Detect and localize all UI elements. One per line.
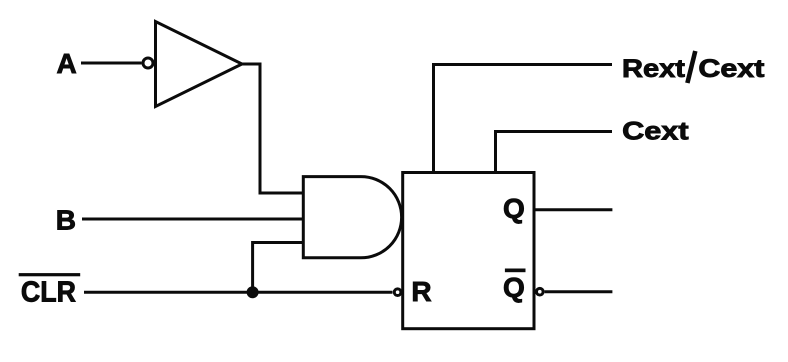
inverter U1 triangle bbox=[156, 22, 243, 107]
svg-text:R: R bbox=[411, 276, 431, 307]
svg-text:A: A bbox=[57, 48, 77, 79]
AND gate U2 bbox=[303, 177, 401, 258]
wire B to AND gate input 2 bbox=[82, 218, 302, 221]
svg-text:CLR: CLR bbox=[21, 277, 76, 309]
wire junction branch to AND gate input 3 bbox=[253, 243, 302, 293]
svg-text:Cext: Cext bbox=[698, 55, 765, 83]
wire Cext from block top bbox=[496, 132, 613, 174]
Q-bar output bubble on block bbox=[537, 288, 544, 295]
inverter U1 input bubble bbox=[143, 58, 153, 68]
one-shot block U3 body bbox=[403, 173, 534, 329]
wire Q output bbox=[534, 208, 613, 211]
Q-bar overline bar bbox=[505, 269, 526, 273]
wire Rext/Cext from block top bbox=[434, 65, 613, 174]
svg-text:Rext: Rext bbox=[622, 55, 686, 83]
CLR overline bar bbox=[19, 273, 80, 276]
R input bubble on block bbox=[394, 289, 401, 296]
wire A to inverter bubble bbox=[81, 62, 142, 65]
junction dot on CLR wire bbox=[247, 286, 259, 298]
svg-text:B: B bbox=[56, 205, 76, 236]
svg-text:Cext: Cext bbox=[622, 118, 689, 146]
svg-text:Q: Q bbox=[503, 193, 525, 224]
wire Q-bar output bbox=[545, 290, 613, 293]
svg-text:Q: Q bbox=[503, 272, 525, 303]
wire CLR to R input bubble bbox=[84, 291, 393, 294]
wire inverter output to AND gate input 1 bbox=[240, 64, 302, 193]
